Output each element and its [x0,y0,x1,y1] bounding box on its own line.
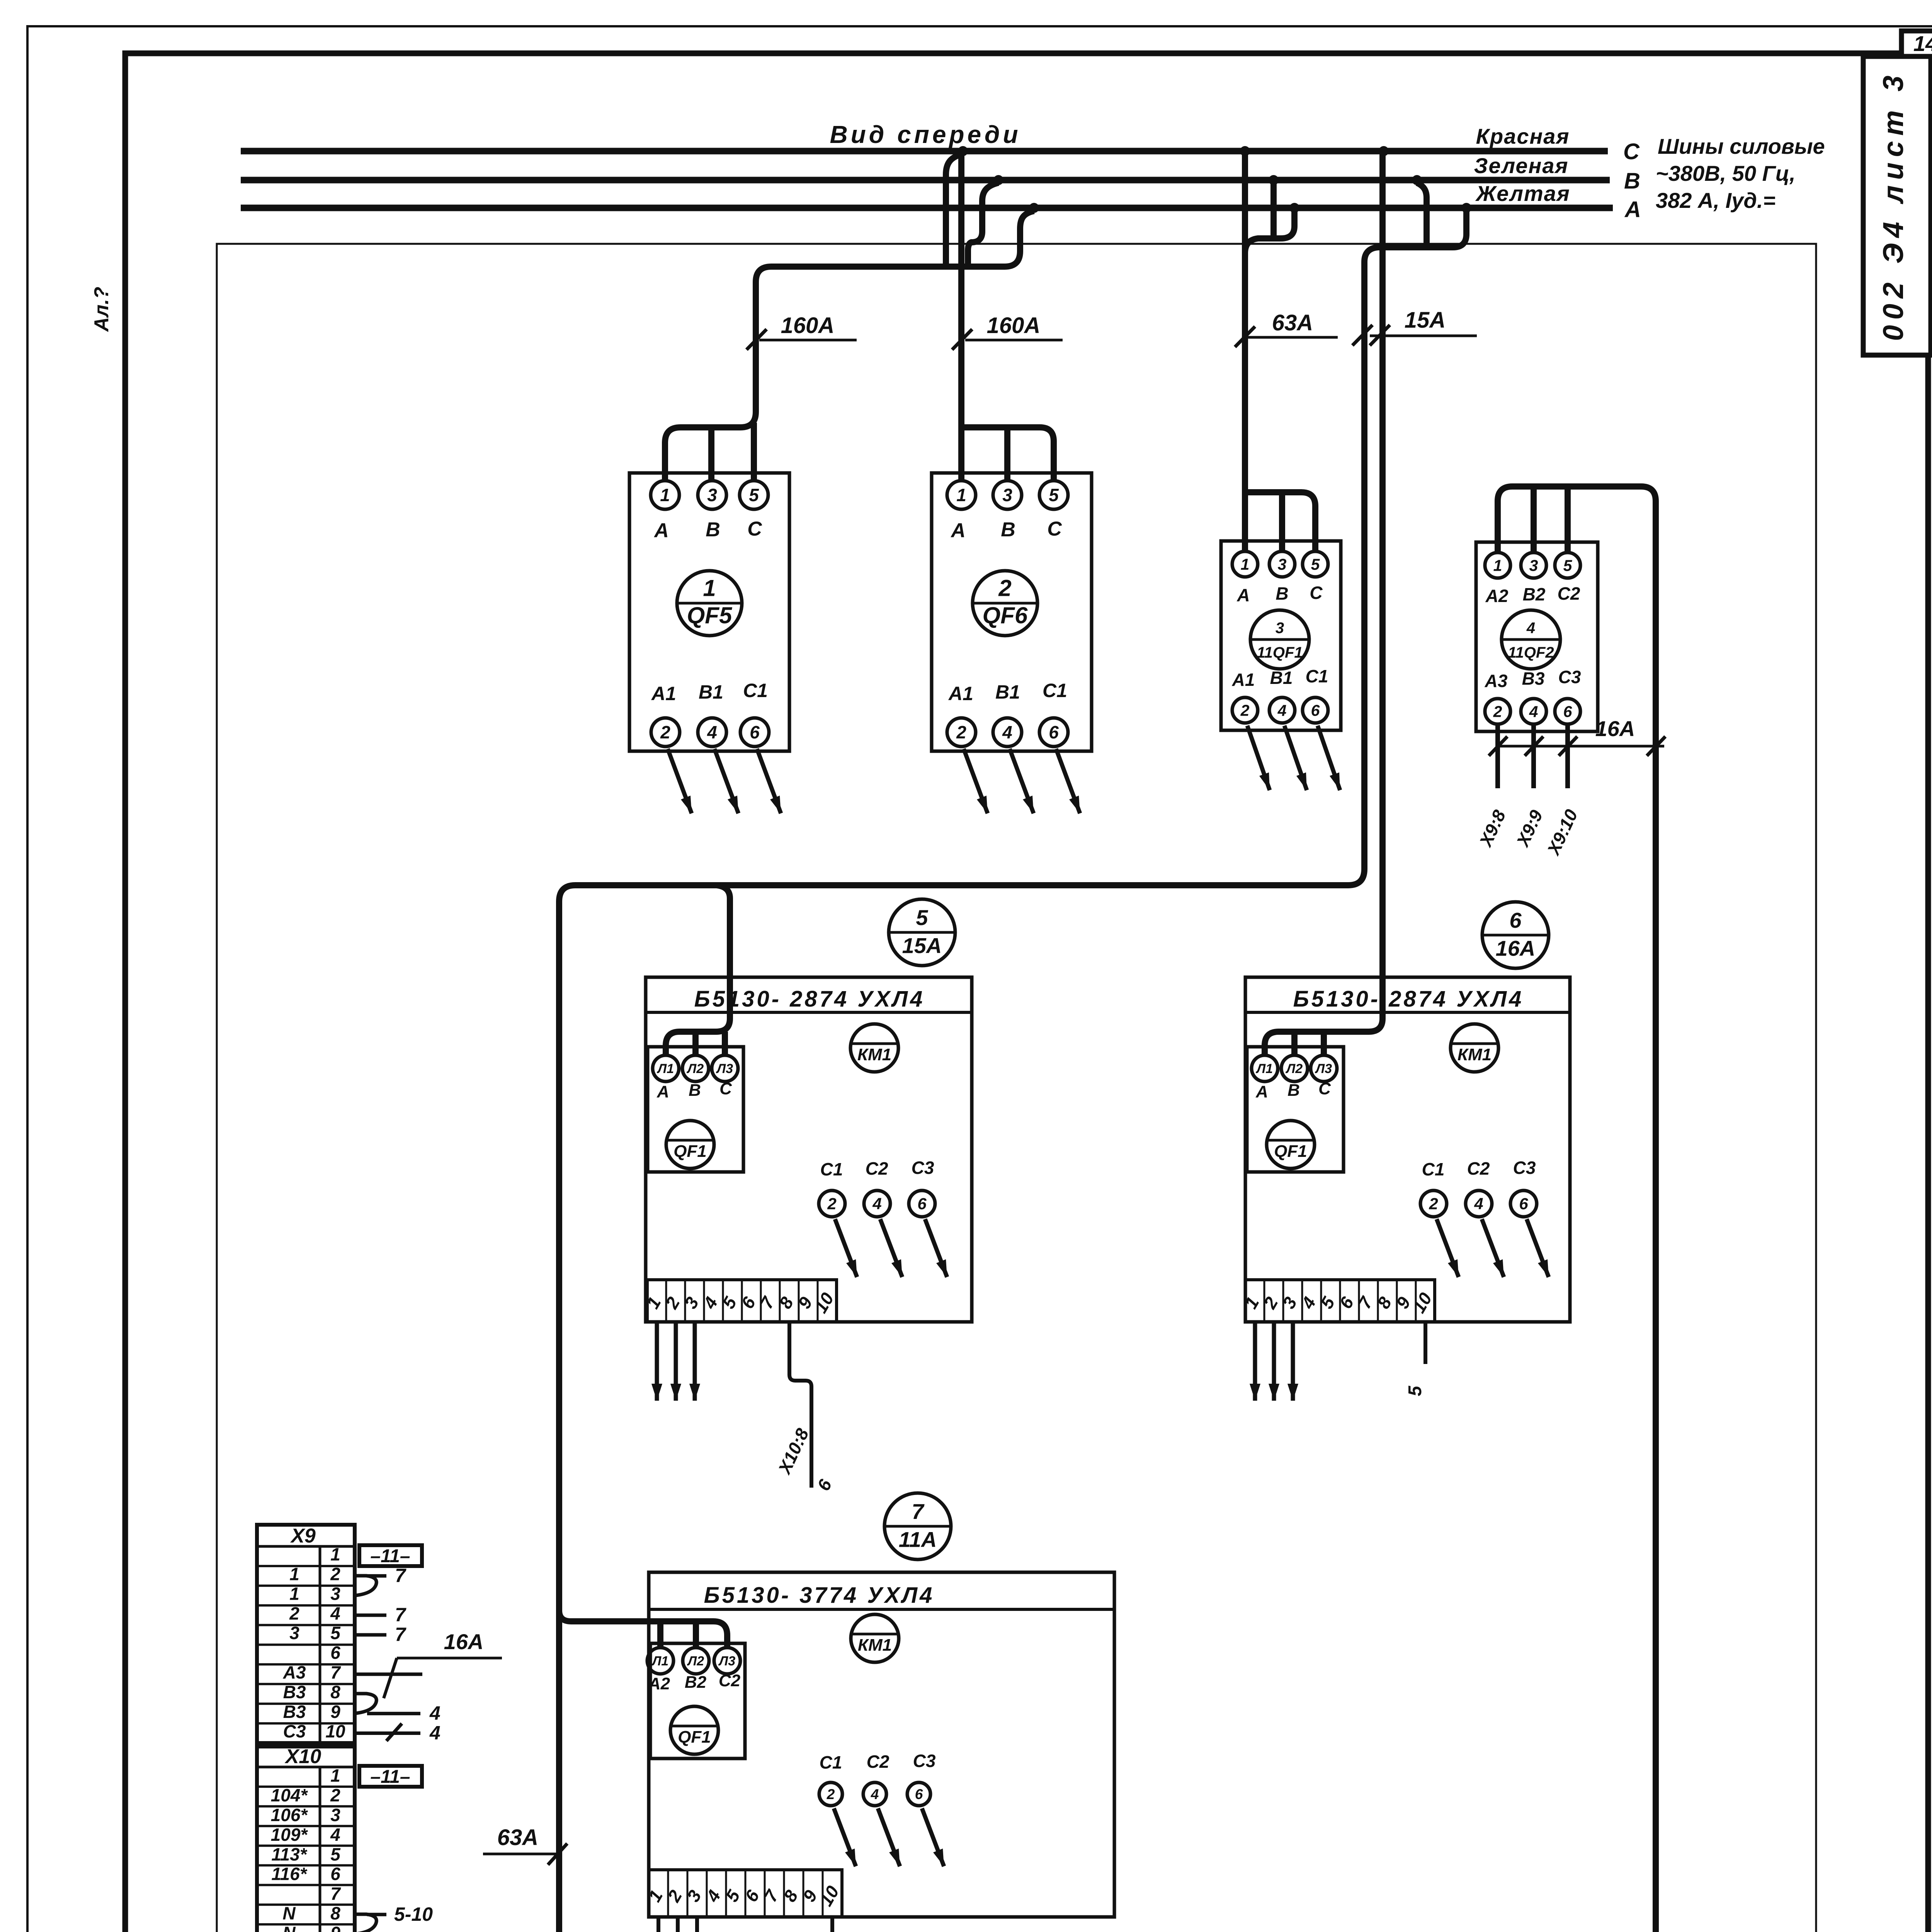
svg-text:С1: С1 [820,1752,842,1772]
svg-text:C: C [1047,518,1062,540]
terminal 1 of 11QF2 [1485,553,1510,578]
wire QF5 drop to terminal 3 [708,427,714,481]
svg-text:3: 3 [680,1293,703,1312]
svg-text:002 Э4 лист 3: 002 Э4 лист 3 [1877,70,1909,341]
svg-text:10: 10 [1408,1289,1436,1316]
wire contactor 7 drop to Л2 [693,1621,699,1648]
outgoing arrow 11QF1 B1 [1284,726,1307,790]
wire 11QF2 drop to terminal 3 [1531,486,1537,553]
svg-text:116*: 116* [271,1864,307,1884]
wire contactor 6 drop to Л3 [1321,1032,1327,1055]
outgoing arrow 11QF1 C1 [1318,726,1340,790]
svg-text:А1: А1 [948,683,973,704]
outgoing arrow 11QF1 A1 [1247,726,1270,790]
svg-text:5: 5 [721,1886,744,1905]
terminal 4 of QF6 [993,718,1022,747]
svg-text:B: B [1001,519,1015,541]
wire 11QF2 output A3 [1495,724,1500,788]
outgoing arrow C2 contactor 6 [1482,1219,1504,1277]
svg-text:113*: 113* [271,1844,307,1864]
svg-text:Красная: Красная [1476,124,1570,148]
svg-text:2: 2 [330,1564,340,1584]
svg-text:С3: С3 [913,1751,936,1771]
panel boundary outline (open bottom) [217,244,1816,1932]
wire bracket bus B and bus A taps joining 63А drop [1245,211,1294,253]
svg-text:6: 6 [915,1786,923,1802]
svg-text:2: 2 [661,1293,684,1312]
svg-text:5: 5 [330,1623,341,1643]
svg-text:3: 3 [1529,556,1538,574]
wire contactor 5 drop to Л2 [692,1032,699,1055]
terminal strip contactor 7 [649,1870,842,1917]
wire QF6 feed drop [958,151,964,481]
wire contactor 6 drop to Л2 [1291,1032,1298,1055]
wire strip 2 contactor 7 [676,1917,680,1932]
svg-text:B: B [706,519,720,541]
outgoing arrow C2 contactor 7 [878,1808,900,1866]
svg-text:63А: 63А [497,1825,538,1850]
svg-text:В2: В2 [1523,584,1546,604]
svg-text:B: B [689,1081,701,1100]
wire bracket taps 3 to distribution drop [559,211,1466,1932]
svg-text:1: 1 [660,485,670,505]
svg-text:Л1: Л1 [656,1061,674,1076]
outgoing arrow strip 3 contactor 5 [693,1322,697,1401]
svg-text:X9:8: X9:8 [1475,807,1510,850]
svg-text:1: 1 [1241,555,1250,573]
svg-text:4: 4 [429,1722,440,1744]
svg-text:2: 2 [663,1886,686,1905]
svg-text:1: 1 [703,575,716,601]
svg-text:6: 6 [1509,908,1522,932]
svg-text:С1: С1 [1306,666,1328,686]
svg-text:С2: С2 [1467,1158,1490,1179]
terminal block X10 table [257,1747,355,1932]
designator circle 3/11QF1 [1250,610,1309,669]
vertical document code box 002 Э4 лист 3 [1863,56,1931,355]
svg-text:C: C [1623,139,1640,164]
svg-text:3: 3 [330,1583,340,1604]
terminal 5 of QF5 [740,481,768,509]
svg-text:4: 4 [699,1293,721,1312]
svg-text:А1: А1 [1232,670,1255,690]
svg-text:9: 9 [330,1702,340,1722]
svg-text:5: 5 [330,1844,341,1864]
rating line 16А on 11QF2 outputs [1498,745,1664,748]
svg-text:Ал.?: Ал.? [90,287,113,332]
svg-text:6: 6 [813,1476,836,1494]
terminal 3 of QF5 [698,481,726,509]
terminal Л3 contactor 6 [1311,1055,1337,1082]
svg-text:С2: С2 [867,1752,889,1772]
svg-text:3: 3 [1002,485,1012,505]
svg-text:B: B [1624,168,1640,194]
svg-text:Л1: Л1 [1255,1061,1273,1076]
svg-text:6: 6 [737,1293,760,1312]
svg-text:A: A [1236,585,1250,605]
terminal 4 of QF5 [698,718,726,747]
svg-text:4: 4 [429,1702,440,1724]
outgoing arrow QF5 phase C [757,749,781,813]
svg-text:4: 4 [330,1603,340,1623]
svg-text:1: 1 [289,1564,299,1584]
X9 row7 wire [355,1672,422,1676]
svg-text:8: 8 [1373,1293,1396,1312]
svg-text:Шины силовые: Шины силовые [1658,134,1825,158]
svg-text:3: 3 [289,1623,299,1643]
svg-text:2: 2 [1259,1293,1282,1312]
svg-text:–11–: –11– [370,1546,410,1566]
svg-text:4: 4 [1474,1195,1483,1213]
wire strip 3 contactor 7 [695,1917,699,1932]
terminal 6 of QF6 [1039,718,1068,747]
outgoing arrow QF5 phase B [714,749,738,813]
svg-text:7: 7 [395,1565,406,1586]
svg-text:6: 6 [1335,1293,1358,1312]
svg-text:A: A [1255,1082,1268,1101]
wire QF6 drop to terminal 3 [1004,427,1010,481]
breaker 11QF2 body [1476,542,1598,731]
outgoing arrow C3 contactor 7 [922,1808,944,1866]
svg-text:QF6: QF6 [983,602,1028,628]
wire contactor 5 drop to Л3 [722,1032,728,1055]
svg-text:6: 6 [1049,722,1059,742]
svg-text:2: 2 [330,1785,340,1805]
svg-text:2: 2 [1429,1195,1438,1213]
svg-text:5: 5 [1405,1385,1425,1396]
svg-text:2: 2 [827,1195,836,1213]
svg-text:2: 2 [1240,701,1250,719]
wire 11QF2 output B3 [1531,724,1536,788]
terminal 1 of QF6 [947,481,976,509]
designator QF1 contactor 6 [1267,1121,1315,1168]
svg-text:8: 8 [330,1903,340,1923]
svg-text:1: 1 [289,1583,299,1604]
svg-text:7: 7 [912,1499,925,1524]
terminal Л2 contactor 5 [682,1055,709,1082]
designator circle 1/QF5 [677,571,742,636]
svg-text:8: 8 [330,1682,340,1702]
node bus C tap 2 [1240,146,1250,156]
terminal 2 contactor 7 [819,1782,842,1806]
terminal 2 contactor 6 [1420,1190,1447,1217]
node bus C tap 3 [1379,146,1389,156]
svg-text:5: 5 [1049,485,1059,505]
svg-text:14: 14 [1913,31,1932,56]
wire strip 10 contactor 6 [1423,1322,1427,1364]
terminal 5 of 11QF1 [1303,551,1328,577]
breaker QF6 body [932,473,1092,751]
terminal 3 of 11QF2 [1521,553,1546,578]
svg-text:3: 3 [707,485,717,505]
designator circle 2/QF6 [973,571,1037,636]
svg-text:160А: 160А [781,313,835,338]
svg-text:109*: 109* [271,1825,308,1845]
svg-text:6: 6 [750,722,760,742]
svg-text:С2: С2 [1558,583,1580,604]
svg-text:А3: А3 [1485,671,1508,691]
svg-text:7: 7 [330,1662,341,1682]
svg-text:КМ1: КМ1 [858,1636,892,1655]
svg-text:C: C [1318,1079,1331,1098]
wire 11QF2 feed bar from right riser [1498,486,1656,553]
svg-text:16А: 16А [444,1629,484,1654]
terminal strip contactor 6 [1245,1280,1435,1322]
bus C (top power bus) [241,148,1608,155]
svg-text:С2: С2 [719,1671,741,1690]
outgoing arrow C2 contactor 5 [880,1219,902,1277]
svg-text:2: 2 [827,1786,835,1802]
terminal 3 of QF6 [993,481,1022,509]
terminal Л1 contactor 6 [1252,1055,1278,1082]
wire bus B tap 3 drop [1417,183,1427,247]
svg-text:8: 8 [779,1886,802,1905]
X9 row4 wire to 7 [355,1614,386,1617]
terminal Л3 contactor 5 [712,1055,738,1082]
wire bus C S-drop joining run [946,154,963,267]
fuse rating 15А on contactor feeds [1370,335,1477,337]
svg-text:1: 1 [330,1544,340,1565]
terminal 1 of QF5 [651,481,679,509]
terminal 4 contactor 6 [1466,1190,1492,1217]
fuse rating 160А on QF5 feed [759,339,857,342]
svg-text:Л3: Л3 [718,1654,735,1668]
svg-text:6: 6 [330,1643,340,1663]
designator КМ1 contactor 5 [850,1024,898,1072]
svg-text:С3: С3 [912,1158,934,1178]
svg-text:6: 6 [741,1886,763,1905]
outgoing arrow strip 1 contactor 6 [1253,1322,1257,1401]
terminal 4 contactor 5 [864,1190,890,1217]
wire long drop to contactor 6 [1265,151,1383,1055]
svg-text:16А: 16А [1595,716,1635,741]
svg-text:4: 4 [707,722,717,742]
contactor 5 body Б5130-2874 [646,977,972,1322]
svg-text:4: 4 [872,1195,881,1213]
terminal Л2 contactor 6 [1281,1055,1308,1082]
svg-text:8: 8 [775,1293,798,1312]
X10 row8 wire to 5-10 [355,1914,376,1932]
designator circle 7/11А [884,1493,951,1560]
outgoing arrow C3 contactor 5 [925,1219,947,1277]
svg-text:B: B [1276,583,1288,604]
svg-text:106*: 106* [271,1805,308,1825]
svg-text:5: 5 [749,485,759,505]
terminal 6 contactor 5 [909,1190,935,1217]
svg-text:QF1: QF1 [673,1142,707,1161]
svg-text:А1: А1 [651,683,676,704]
designator circle 6/16А [1482,902,1549,968]
svg-text:10: 10 [816,1882,843,1910]
contactor 5 breaker sub-unit [648,1047,743,1172]
svg-text:2: 2 [1493,702,1502,720]
designator КМ1 contactor 6 [1451,1024,1498,1072]
terminal 4 contactor 7 [863,1782,886,1806]
svg-text:A: A [1624,197,1641,222]
outgoing arrow QF6 phase C [1056,749,1080,813]
svg-text:2: 2 [660,722,670,742]
terminal Л2 contactor 7 [683,1648,709,1674]
svg-text:X10: X10 [284,1745,321,1768]
wire 11QF1 drop to terminal 3 [1279,492,1285,552]
svg-text:В1: В1 [1270,668,1293,688]
svg-text:3: 3 [683,1886,705,1905]
breaker QF5 body [629,473,789,751]
svg-text:6: 6 [917,1195,927,1213]
X9 row5 wire to 7 [355,1633,386,1637]
svg-text:С3: С3 [1558,667,1581,687]
outgoing arrow C1 contactor 6 [1437,1219,1459,1277]
svg-text:N: N [282,1903,296,1923]
wire bus B Z-drop joining run [968,183,998,267]
wire contactor 7 drop to Л1 [657,1621,663,1648]
svg-text:КМ1: КМ1 [1458,1045,1492,1064]
svg-text:Зеленая: Зеленая [1474,153,1569,178]
svg-text:2: 2 [998,575,1011,601]
terminal strip contactor 5 [647,1280,837,1322]
node bus B tap 3 [1412,175,1422,185]
terminal 6 of 11QF1 [1303,697,1328,723]
outgoing arrow QF6 phase A [964,749,988,813]
terminal 4 of 11QF1 [1269,697,1295,723]
svg-text:С3: С3 [1513,1158,1536,1178]
contactor 6 body Б5130-2874 [1245,977,1570,1322]
terminal 2 of QF6 [947,718,976,747]
wire branch to contactor 5 feed [666,885,730,1055]
fuse rating 160А on QF6 feed [965,339,1063,342]
svg-text:5: 5 [1311,555,1320,573]
svg-text:4: 4 [1526,619,1535,636]
svg-text:QF1: QF1 [678,1728,711,1747]
svg-text:Б5130- 2874 УХЛ4: Б5130- 2874 УХЛ4 [694,986,925,1012]
svg-text:6: 6 [1563,702,1573,720]
svg-text:5: 5 [1563,556,1573,574]
svg-text:–11–: –11– [370,1767,410,1787]
svg-text:1: 1 [330,1765,340,1786]
bus A (bottom power bus) [241,205,1613,211]
svg-text:6: 6 [1311,701,1320,719]
designator QF1 contactor 7 [670,1706,718,1754]
svg-text:A: A [656,1082,669,1101]
wire 11QF2 output C3 [1565,724,1570,788]
svg-text:А3: А3 [283,1662,306,1682]
outgoing arrow QF6 phase B [1010,749,1034,813]
designator QF1 contactor 5 [666,1121,714,1168]
node bus A tap 2 [1289,203,1299,213]
svg-text:В1: В1 [699,681,723,703]
wire strip 1 contactor 7 [656,1917,660,1932]
svg-text:Л2: Л2 [687,1654,704,1668]
svg-text:N: N [282,1923,296,1932]
X9 rows 8-9 bracket [355,1694,376,1713]
svg-text:11QF2: 11QF2 [1508,644,1554,661]
svg-text:C: C [747,518,762,540]
svg-text:С1: С1 [743,680,768,701]
X9 rows 2-3 bracket to 7 [355,1576,376,1595]
svg-text:QF1: QF1 [1274,1142,1307,1161]
svg-text:Вид спереди: Вид спереди [830,121,1021,148]
X9 row1 jumper -11- [359,1545,422,1566]
svg-text:А2: А2 [648,1674,670,1693]
svg-text:1: 1 [956,485,966,505]
svg-text:10: 10 [810,1289,838,1316]
svg-text:С1: С1 [820,1159,843,1179]
svg-text:3: 3 [1279,1293,1301,1312]
outgoing arrow strip 3 contactor 6 [1291,1322,1295,1401]
bus B (middle power bus) [241,177,1610,184]
svg-text:104*: 104* [271,1785,308,1805]
svg-text:382 А, Iуд.=: 382 А, Iуд.= [1656,188,1776,213]
node bus A tap 1 [1029,203,1039,213]
svg-text:11А: 11А [899,1527,937,1551]
svg-text:С1: С1 [1043,680,1067,701]
svg-text:В3: В3 [283,1702,306,1722]
svg-text:3: 3 [1276,619,1284,636]
svg-text:С2: С2 [866,1158,888,1179]
contactor 6 breaker sub-unit [1247,1047,1344,1172]
node bus A tap 3 [1461,203,1471,213]
svg-text:Л2: Л2 [1285,1061,1303,1076]
outgoing arrow strip 2 contactor 5 [674,1322,678,1401]
svg-text:Желтая: Желтая [1475,181,1570,206]
terminal 5 of 11QF2 [1555,553,1580,578]
svg-text:QF5: QF5 [687,602,733,628]
fuse rating 63А on contactor 7 feed [483,1853,561,1855]
terminal 6 contactor 6 [1510,1190,1537,1217]
svg-text:6: 6 [330,1864,340,1884]
svg-text:11QF1: 11QF1 [1257,644,1303,661]
X9 row9 wire to 4 [367,1712,420,1715]
node bus C tap 1 [958,146,968,156]
svg-text:В3: В3 [1522,668,1545,689]
svg-text:4: 4 [1529,702,1538,720]
node bus B tap 1 [993,175,1003,185]
svg-text:A: A [950,519,966,542]
wire run into К42 right group from 11QF2 riser [613,501,1656,1932]
terminal 2 of QF5 [651,718,680,747]
svg-text:КМ1: КМ1 [857,1045,891,1064]
svg-text:5: 5 [916,905,928,930]
svg-text:7: 7 [330,1884,341,1904]
terminal 6 of 11QF2 [1555,699,1580,724]
designator КМ1 contactor 7 [851,1614,899,1662]
terminal 1 of 11QF1 [1232,551,1258,577]
designator circle 4/11QF2 [1502,610,1560,669]
svg-text:Б5130- 2874 УХЛ4: Б5130- 2874 УХЛ4 [1293,986,1524,1012]
svg-text:4: 4 [1277,701,1287,719]
terminal Л1 contactor 7 [647,1648,673,1674]
svg-text:10: 10 [325,1721,345,1742]
svg-text:4: 4 [702,1887,724,1906]
wire QF5 feed continues to terminal 5 [751,423,757,481]
svg-text:16А: 16А [1496,936,1536,960]
terminal 2 of 11QF2 [1485,699,1510,724]
wire strip 8 contactor 5 to X10:8 [789,1322,811,1488]
svg-text:7: 7 [395,1624,406,1645]
outgoing arrow strip 2 contactor 6 [1272,1322,1276,1401]
svg-text:С1: С1 [1422,1159,1445,1179]
contactor 7 breaker sub-unit [650,1643,745,1759]
svg-text:X9:10: X9:10 [1543,806,1582,859]
svg-text:160А: 160А [987,313,1041,338]
svg-text:6: 6 [1519,1195,1528,1213]
wire strip 10 contactor 7 [830,1917,834,1932]
svg-text:1: 1 [1493,556,1502,574]
wire bus B tap 2 drop [1270,183,1277,238]
svg-text:В2: В2 [685,1673,707,1692]
node bus B tap 2 [1269,175,1279,185]
outgoing arrow C3 contactor 6 [1527,1219,1549,1277]
